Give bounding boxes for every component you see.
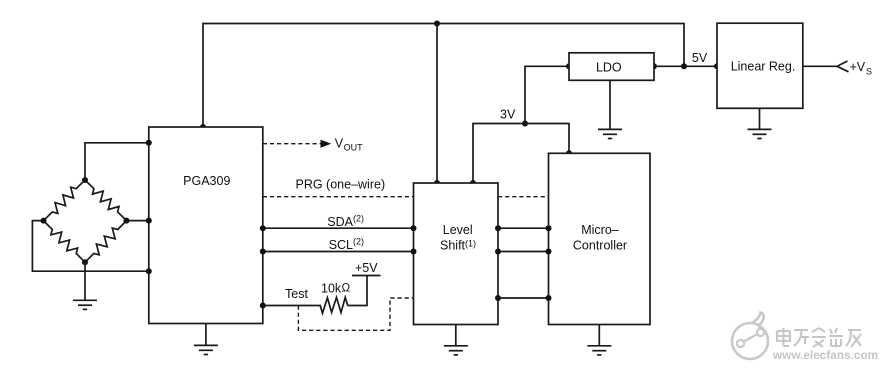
- node: junction at PGA309 top edge: [200, 124, 206, 130]
- svg-text:Micro–: Micro–: [581, 223, 619, 237]
- wire: SCL Level Shift to Micro-Controller: [495, 249, 552, 255]
- node: bridge bottom: [82, 259, 88, 265]
- node: Linear Reg input pin: [714, 63, 720, 69]
- svg-text:5V: 5V: [692, 51, 708, 65]
- svg-text:Linear Reg.: Linear Reg.: [731, 60, 796, 74]
- label: SCL(2): [329, 237, 364, 253]
- svg-text:PRG (one–wire): PRG (one–wire): [296, 178, 386, 192]
- block Level Shift: [414, 183, 499, 325]
- sensor bridge: resistor top-right: [85, 180, 127, 221]
- node: bridge top: [82, 177, 88, 183]
- label: SDA(2): [327, 214, 364, 230]
- watermark: www.elecfans.com: [772, 348, 878, 362]
- wire: bridge right node to PGA309: [127, 218, 152, 224]
- svg-text:(2): (2): [353, 237, 364, 247]
- wire: VOUT dashed arrow: [263, 140, 331, 148]
- block Micro-Controller: [549, 153, 651, 324]
- svg-text:SDA: SDA: [327, 215, 353, 229]
- sensor bridge: resistor bottom-left: [44, 221, 86, 263]
- node: junction on top rail above Level Shift: [434, 21, 440, 27]
- wire: PRG dashed PGA309 to Level Shift: [263, 196, 414, 198]
- svg-text:www.elecfans.com: www.elecfans.com: [772, 348, 878, 362]
- wire: third line Level Shift to Micro-Controller: [495, 295, 552, 301]
- svg-text:Ω: Ω: [342, 283, 351, 295]
- block PGA309: [149, 127, 263, 324]
- svg-text:3V: 3V: [500, 108, 516, 122]
- ground: LDO: [598, 80, 622, 138]
- wire: bridge left node around to PGA309: [32, 221, 151, 275]
- label: 10kOhm: [321, 282, 351, 296]
- wire: 5V net between LDO output and Linear Reg input: [654, 65, 717, 67]
- wire: bridge top node to PGA309: [85, 140, 152, 180]
- wire: Linear Reg output to +VS chevron: [803, 61, 849, 72]
- ground: Micro-Controller: [587, 325, 611, 355]
- ground: PGA309: [194, 324, 218, 355]
- label: +VS: [850, 60, 873, 77]
- node: 3V junction: [522, 121, 528, 127]
- svg-text:SCL: SCL: [329, 238, 353, 252]
- label: +5V: [355, 261, 378, 275]
- wire: SCL PGA309 to Level Shift: [260, 249, 417, 255]
- wire: Test from PGA309: [260, 303, 320, 309]
- label: VOUT: [335, 137, 363, 153]
- svg-text:Shift: Shift: [440, 238, 466, 252]
- svg-text:V: V: [335, 137, 344, 151]
- label: Test: [285, 287, 308, 301]
- svg-text:PGA309: PGA309: [183, 174, 230, 188]
- block Linear Reg.: [717, 23, 803, 108]
- node: LDO output pin: [651, 63, 657, 69]
- svg-text:+V: +V: [850, 60, 866, 74]
- svg-text:S: S: [866, 67, 872, 77]
- svg-text:10k: 10k: [321, 282, 342, 296]
- wire: 3V net to Level Shift and Micro-Controller: [470, 124, 572, 187]
- label: 5V: [692, 51, 708, 65]
- svg-text:(1): (1): [465, 239, 476, 249]
- svg-text:OUT: OUT: [344, 143, 364, 153]
- wire: top 5V rail from PGA309 top to right drop: [203, 24, 684, 128]
- label: PRG (one-wire): [296, 178, 386, 192]
- watermark: chinese characters placeholder strokes: [777, 328, 861, 347]
- resistor 10k: [320, 297, 348, 313]
- sensor bridge: resistor bottom-right: [85, 221, 127, 263]
- node: 5V junction: [681, 63, 687, 69]
- svg-text:Test: Test: [285, 287, 308, 301]
- watermark: elecfans logo: [732, 313, 768, 360]
- wire: SDA Level Shift to Micro-Controller: [495, 225, 552, 231]
- wire: PRG dashed Level Shift to Micro-Controller: [498, 196, 549, 198]
- svg-text:LDO: LDO: [596, 61, 622, 75]
- wire: SDA PGA309 to Level Shift: [260, 225, 417, 231]
- wire: drop from top rail to Level Shift top: [434, 24, 440, 187]
- node: bridge right: [124, 218, 130, 224]
- wire: resistor to +5V supply: [348, 276, 381, 306]
- ground: Level Shift: [444, 325, 468, 355]
- ground: bridge: [73, 262, 97, 309]
- svg-text:+5V: +5V: [355, 261, 378, 275]
- svg-text:Controller: Controller: [573, 238, 627, 252]
- node: bridge left: [41, 218, 47, 224]
- wire: LDO input from 3V junction: [525, 63, 572, 123]
- wire: Test dashed route to Level Shift: [298, 298, 413, 330]
- label: 3V: [500, 108, 516, 122]
- svg-text:(2): (2): [353, 214, 364, 224]
- sensor bridge: resistor top-left: [44, 180, 86, 221]
- block LDO: [569, 53, 654, 81]
- svg-text:Level: Level: [443, 223, 473, 237]
- ground: Linear Reg: [748, 108, 772, 138]
